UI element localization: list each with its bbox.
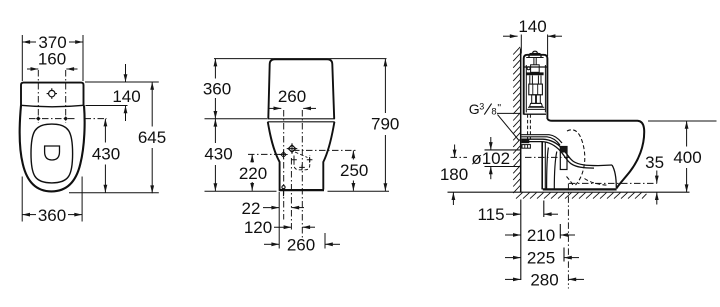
svg-text:220: 220 xyxy=(239,164,267,183)
dim 250 xyxy=(352,150,354,159)
seat opening oval xyxy=(31,124,73,183)
pedestal left extension line xyxy=(278,192,280,249)
dim 160 xyxy=(27,68,38,70)
trap down-leg left xyxy=(547,148,549,190)
svg-text:3: 3 xyxy=(479,101,484,111)
svg-text:645: 645 xyxy=(138,128,166,147)
hidden inner foot curve xyxy=(567,177,574,186)
dim 220 xyxy=(251,154,253,162)
hidden trap arc xyxy=(567,130,585,185)
valve flange thick xyxy=(527,72,544,75)
dim 370 xyxy=(22,41,36,43)
G3/8 leader horizontal xyxy=(497,112,520,114)
fixing hole diamond 2 xyxy=(288,145,295,152)
svg-text:120: 120 xyxy=(244,218,272,237)
svg-text:G: G xyxy=(469,101,480,117)
bowl outer outline xyxy=(20,106,85,192)
plus mark 1 xyxy=(291,157,297,163)
centerline vertical left xyxy=(37,70,39,123)
hinge hole marker left xyxy=(36,116,41,121)
bowl top and front profile xyxy=(547,119,644,189)
ext 260 bottom right xyxy=(324,233,326,249)
cistern joint line 1 xyxy=(267,118,335,120)
fixing screw hook xyxy=(282,186,285,189)
valve bell xyxy=(530,103,543,106)
cistern joint line 2 xyxy=(268,121,335,123)
hole centerline 250 xyxy=(293,149,357,151)
svg-text:140: 140 xyxy=(518,17,546,36)
tank bottom line xyxy=(524,113,546,115)
cistern lid side view xyxy=(524,55,548,119)
svg-text:35: 35 xyxy=(645,153,664,172)
bowl left side xyxy=(268,122,280,190)
ext line 140 top xyxy=(85,81,159,83)
float inner column xyxy=(532,84,534,95)
outlet pipe section xyxy=(560,147,567,170)
ext line 400 top xyxy=(648,120,717,122)
bowl rear ledge line 2 xyxy=(522,137,561,145)
svg-text:22: 22 xyxy=(242,199,261,218)
trap centerline horizontal xyxy=(569,182,657,184)
ext line 140 bottom xyxy=(86,105,128,107)
pedestal rear extension xyxy=(543,201,545,218)
rear pedestal edge inner xyxy=(544,143,546,190)
svg-text:ø102: ø102 xyxy=(471,149,510,168)
hinge centerline horizontal xyxy=(29,118,75,120)
wall face xyxy=(520,48,522,192)
ext line joint left xyxy=(205,118,268,120)
dim 430 middle xyxy=(214,119,216,143)
svg-text:790: 790 xyxy=(371,115,399,134)
hidden dash diagonal xyxy=(295,152,308,158)
dim 400 xyxy=(686,121,688,147)
bottom ext line left view xyxy=(69,192,159,194)
valve column inner walls xyxy=(531,75,533,84)
ext line tank right up xyxy=(547,35,549,57)
centerline A xyxy=(283,110,285,220)
cistern outline front xyxy=(268,59,334,119)
ext line 370 right xyxy=(82,35,84,81)
svg-text:210: 210 xyxy=(527,226,555,245)
svg-text:160: 160 xyxy=(38,50,66,69)
bowl right side xyxy=(323,122,334,190)
svg-text:115: 115 xyxy=(477,205,504,224)
hidden hole outline dashed xyxy=(294,156,310,170)
fixing hole diamond 1 xyxy=(281,152,286,157)
svg-text:430: 430 xyxy=(92,145,120,164)
trap channel lower curve xyxy=(522,142,595,169)
ext 225 xyxy=(563,248,565,262)
dim 360 xyxy=(22,214,36,216)
float xyxy=(529,84,543,95)
svg-text:280: 280 xyxy=(530,270,558,289)
fill pipe hidden xyxy=(527,114,529,139)
svg-text:260: 260 xyxy=(287,235,315,254)
G3/8 leader diagonal xyxy=(498,115,520,141)
wall hatching xyxy=(513,47,520,193)
dim 360 middle xyxy=(214,59,216,79)
ground dash right xyxy=(328,190,390,192)
rear pedestal edge outer xyxy=(541,142,543,190)
plus mark 2 xyxy=(307,157,313,163)
valve column outer walls xyxy=(529,75,531,84)
svg-text:260: 260 xyxy=(278,87,306,106)
button push rods xyxy=(533,58,535,65)
pipe centerline xyxy=(451,156,468,158)
svg-text:8: 8 xyxy=(491,106,496,117)
svg-text:250: 250 xyxy=(340,161,368,180)
float legs xyxy=(532,95,536,104)
svg-text:430: 430 xyxy=(204,145,232,164)
fill valve cap xyxy=(531,65,540,73)
button base line xyxy=(526,57,543,59)
mechanism base lines xyxy=(528,106,544,108)
svg-text:140: 140 xyxy=(112,87,140,106)
dim 180 xyxy=(454,145,456,158)
flush button xyxy=(49,90,55,96)
water inlet fitting xyxy=(522,139,530,143)
dim diameter 102 xyxy=(485,149,521,151)
dim 645 xyxy=(151,82,153,127)
trap channel upper curve xyxy=(522,139,613,165)
hidden outlet curve xyxy=(585,179,608,186)
flush button knob xyxy=(533,51,538,53)
centerline B xyxy=(301,110,303,239)
svg-text:360: 360 xyxy=(38,206,66,225)
hinge centerline 220 xyxy=(248,153,284,155)
ext line 360 left xyxy=(21,177,23,222)
trap down-leg right xyxy=(554,152,557,190)
bowl base line xyxy=(543,188,617,190)
flush button dome xyxy=(529,54,541,58)
ext 210 xyxy=(559,224,561,239)
svg-text:360: 360 xyxy=(203,80,231,99)
G3/8 fraction slash xyxy=(484,104,491,115)
svg-text:180: 180 xyxy=(440,165,468,184)
hinge hole marker right xyxy=(63,116,68,121)
svg-text:400: 400 xyxy=(673,148,701,167)
svg-text:": " xyxy=(497,102,501,114)
ext line wall face up xyxy=(520,35,522,54)
ground hatching xyxy=(516,193,647,199)
lid joint line xyxy=(524,66,548,68)
tank bottom edge curve xyxy=(21,105,84,107)
ground line xyxy=(448,191,690,193)
centerline C xyxy=(290,158,292,232)
hinge centerline extension right xyxy=(85,118,108,120)
dim 790 xyxy=(384,59,386,113)
tank outline top view xyxy=(21,83,84,106)
ext line 370 left xyxy=(21,35,23,81)
base line xyxy=(279,189,324,191)
ext line 360 right xyxy=(81,177,83,222)
dim 430 left view xyxy=(104,119,106,143)
outlet centerline vertical xyxy=(567,183,569,288)
plus mark 3 xyxy=(299,165,305,171)
svg-text:225: 225 xyxy=(527,249,555,268)
top extension line xyxy=(214,58,387,60)
water spot xyxy=(45,146,60,160)
wall face extension below xyxy=(520,200,522,281)
centerline vertical right xyxy=(65,70,67,123)
dim 140 xyxy=(125,64,127,82)
tank inner walls xyxy=(525,65,527,112)
bowl rear ledge line 1 xyxy=(522,135,563,143)
bowl inner front line xyxy=(612,165,616,188)
ground dash left xyxy=(205,190,277,192)
